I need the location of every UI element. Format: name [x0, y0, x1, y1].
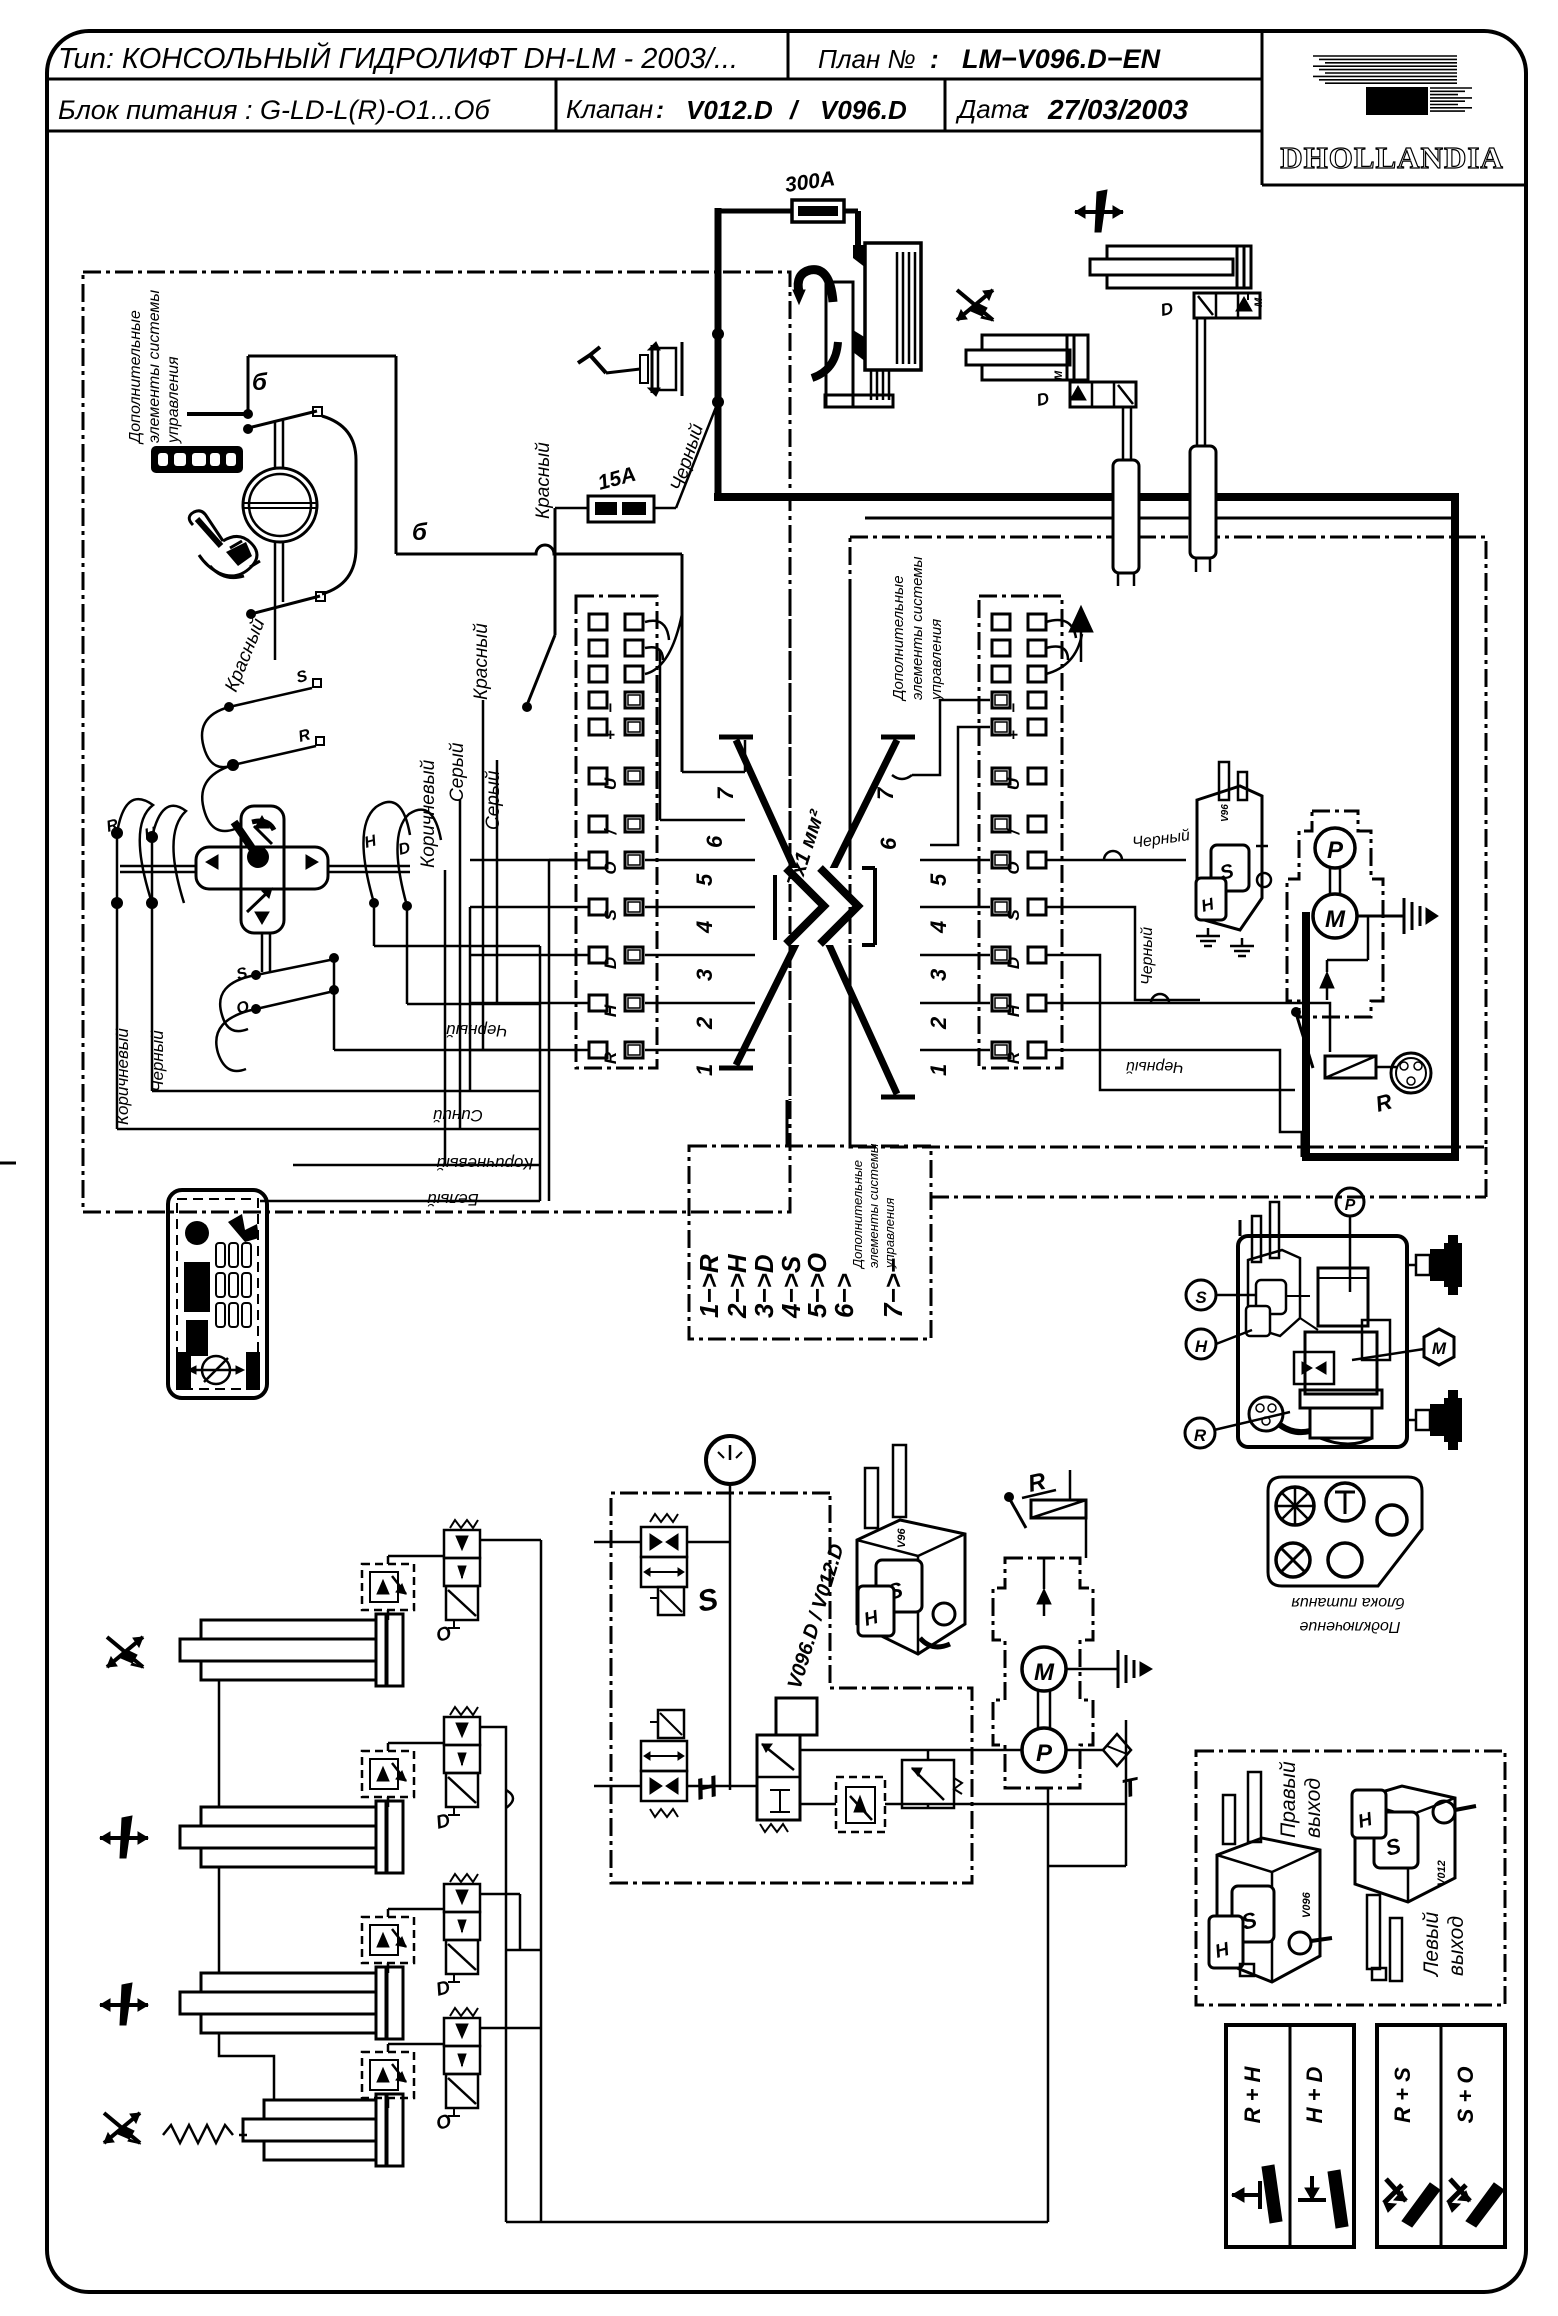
- svg-text:Левый: Левый: [1420, 1912, 1443, 1978]
- svg-text:+: +: [1004, 730, 1023, 740]
- svg-text:D: D: [434, 1810, 453, 1834]
- svg-text:−: −: [601, 703, 620, 713]
- svg-text:Черный: Черный: [148, 1030, 167, 1092]
- svg-text:R: R: [297, 726, 313, 746]
- svg-text:Серый: Серый: [447, 742, 468, 802]
- svg-text:S: S: [1004, 909, 1023, 921]
- svg-text:Коричневый: Коричневый: [436, 1154, 533, 1173]
- svg-text:U: U: [601, 777, 620, 790]
- svg-text:элементы системы: элементы системы: [866, 1143, 881, 1268]
- svg-text:M: M: [1253, 297, 1265, 307]
- svg-text:б: б: [412, 519, 428, 546]
- svg-text:5: 5: [692, 873, 717, 886]
- svg-text:H: H: [693, 1770, 722, 1807]
- svg-text:R: R: [1373, 1089, 1395, 1117]
- svg-text:Красный: Красный: [533, 442, 554, 519]
- svg-text:Tun: КОНСОЛЬНЫЙ ГИДРОЛИФТ DH-L: Tun: КОНСОЛЬНЫЙ ГИДРОЛИФТ DH-LM - 2003/.…: [58, 41, 738, 75]
- svg-text:R: R: [1194, 1426, 1207, 1445]
- svg-text:T: T: [1119, 1771, 1143, 1804]
- svg-text::: :: [1022, 97, 1030, 124]
- svg-text:Черный: Черный: [1139, 927, 1156, 985]
- svg-text:V96: V96: [896, 1528, 908, 1548]
- svg-text:+: +: [601, 730, 620, 740]
- svg-text:S: S: [601, 909, 620, 921]
- svg-text:O: O: [434, 2111, 454, 2135]
- svg-text:R + H: R + H: [1240, 2065, 1265, 2123]
- svg-text:P: P: [1036, 1740, 1053, 1767]
- svg-text:2: 2: [692, 1016, 717, 1030]
- svg-text:LM−V096.D−EN: LM−V096.D−EN: [962, 44, 1161, 74]
- svg-text:R + S: R + S: [1390, 2067, 1415, 2123]
- svg-text:7: 7: [873, 786, 898, 800]
- svg-text:Подключение: Подключение: [1299, 1618, 1400, 1635]
- svg-text:Черный: Черный: [446, 1021, 508, 1040]
- svg-text:б: б: [252, 369, 268, 396]
- svg-text:1−>R: 1−>R: [694, 1254, 724, 1318]
- svg-text:D: D: [1159, 299, 1175, 320]
- svg-text:R: R: [1004, 1051, 1023, 1064]
- svg-text:V096: V096: [1301, 1891, 1313, 1918]
- svg-text:−: −: [1004, 703, 1023, 713]
- svg-text:D: D: [397, 839, 413, 859]
- svg-text:V96: V96: [1220, 804, 1231, 822]
- svg-text:Правый: Правый: [1277, 1761, 1300, 1838]
- svg-text:управления: управления: [165, 356, 182, 444]
- svg-text:D: D: [1004, 957, 1023, 969]
- svg-text:2−>H: 2−>H: [722, 1253, 752, 1319]
- svg-text:/: /: [601, 827, 620, 835]
- svg-text:элементы системы: элементы системы: [146, 290, 163, 443]
- svg-text:Дата: Дата: [955, 94, 1027, 124]
- svg-text:D: D: [1035, 389, 1051, 410]
- svg-text:6: 6: [876, 837, 901, 850]
- svg-text:/: /: [789, 95, 800, 125]
- svg-text:2: 2: [926, 1016, 951, 1030]
- svg-text:управления: управления: [882, 1198, 897, 1269]
- svg-text:Серый: Серый: [483, 770, 504, 830]
- svg-text:H: H: [1195, 1337, 1208, 1356]
- svg-text:H: H: [601, 1004, 620, 1017]
- svg-text:H + D: H + D: [1302, 2066, 1327, 2123]
- svg-text:S + O: S + O: [1453, 2067, 1478, 2124]
- svg-text:выход: выход: [1445, 1916, 1468, 1976]
- svg-text:V012.D: V012.D: [686, 95, 773, 125]
- svg-text:Красный: Красный: [471, 623, 492, 700]
- svg-text:блока питания: блока питания: [1291, 1594, 1405, 1611]
- svg-text:4: 4: [692, 921, 717, 934]
- svg-text:S: S: [1195, 1288, 1207, 1307]
- svg-text:План №: План №: [818, 44, 916, 74]
- svg-text::: :: [930, 44, 939, 74]
- svg-text:Клапан: Клапан: [566, 94, 653, 124]
- svg-text:D: D: [601, 957, 620, 969]
- svg-text:Синий: Синий: [432, 1106, 483, 1125]
- svg-text:Черный: Черный: [1126, 1058, 1184, 1075]
- svg-text:Дополнительные: Дополнительные: [850, 1160, 865, 1270]
- svg-text:элементы системы: элементы системы: [909, 556, 926, 700]
- svg-text:O: O: [601, 861, 620, 874]
- svg-text:V096.D: V096.D: [820, 95, 907, 125]
- svg-text:Коричневый: Коричневый: [418, 759, 439, 868]
- svg-text:M: M: [1034, 1659, 1055, 1686]
- svg-text:S: S: [295, 668, 310, 687]
- svg-text:3−>D: 3−>D: [749, 1254, 779, 1318]
- svg-text:S: S: [695, 1582, 721, 1618]
- svg-text:5: 5: [926, 873, 951, 886]
- svg-text:D: D: [434, 1977, 453, 2001]
- svg-text:4: 4: [926, 921, 951, 934]
- svg-text:3: 3: [926, 969, 951, 981]
- svg-text:Красный: Красный: [221, 615, 269, 695]
- svg-text:Черный: Черный: [1131, 827, 1191, 852]
- svg-text:управления: управления: [928, 619, 945, 701]
- svg-text:Белый: Белый: [427, 1190, 479, 1209]
- svg-text:Дополнительные: Дополнительные: [890, 575, 907, 702]
- svg-text:M: M: [1432, 1339, 1447, 1358]
- svg-text:P: P: [1327, 837, 1344, 864]
- svg-text:V012: V012: [1436, 1860, 1448, 1886]
- svg-text::: :: [656, 97, 664, 124]
- svg-text:R: R: [601, 1051, 620, 1064]
- svg-text:O: O: [434, 1623, 454, 1647]
- svg-text:O: O: [1004, 861, 1023, 874]
- svg-text:M: M: [1053, 370, 1065, 380]
- svg-text:DHOLLANDIA: DHOLLANDIA: [1280, 140, 1504, 175]
- svg-text:7: 7: [713, 786, 738, 800]
- svg-text:5−>O: 5−>O: [802, 1253, 832, 1318]
- svg-text:U: U: [1004, 777, 1023, 790]
- svg-text:1: 1: [692, 1064, 717, 1076]
- svg-text:6: 6: [702, 835, 727, 848]
- svg-text:300A: 300A: [783, 167, 836, 197]
- svg-text:выход: выход: [1302, 1778, 1325, 1838]
- svg-text:6−>: 6−>: [829, 1273, 859, 1318]
- svg-text:Дополнительные: Дополнительные: [127, 310, 144, 445]
- svg-text:V096.D / V012.D: V096.D / V012.D: [784, 1541, 849, 1691]
- svg-text:3: 3: [692, 969, 717, 981]
- svg-text:Черный: Черный: [667, 421, 708, 493]
- svg-text:H: H: [363, 832, 379, 852]
- svg-text:P: P: [1345, 1197, 1356, 1214]
- svg-text:15A: 15A: [595, 463, 638, 495]
- svg-text:H: H: [1004, 1004, 1023, 1017]
- svg-text:Блок питания : G-LD-L(R)-O1...: Блок питания : G-LD-L(R)-O1...Об: [58, 95, 490, 125]
- svg-text:1: 1: [926, 1064, 951, 1076]
- svg-text:27/03/2003: 27/03/2003: [1047, 94, 1189, 125]
- svg-text:Коричневый: Коричневый: [113, 1028, 132, 1125]
- svg-text:M: M: [1325, 906, 1346, 933]
